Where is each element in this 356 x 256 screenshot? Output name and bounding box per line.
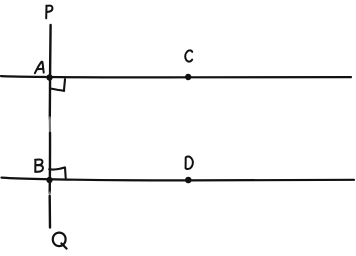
node C (dot) (185, 74, 191, 80)
right-angle mark at A (51, 79, 65, 91)
wire: transversal line PQ upper segment (49, 25, 52, 119)
node A (dot) (46, 74, 52, 80)
wire: transversal line PQ small faint overlap (49, 192, 51, 196)
label B (35, 159, 43, 171)
wire: parallel line 1 through A and C (1, 76, 351, 77)
wire: parallel line 2 through B and D (2, 178, 355, 181)
label C (185, 50, 192, 61)
label D (186, 156, 193, 169)
node D (dot) (185, 177, 192, 184)
wire: transversal line PQ faint overlap (49, 118, 51, 134)
label A (35, 62, 44, 74)
wire: transversal line PQ mid segment (49, 133, 52, 193)
label P (46, 6, 52, 19)
label Q (53, 233, 67, 249)
node B (dot) (46, 177, 52, 183)
wire: transversal line PQ lower segment (49, 196, 52, 228)
right-angle mark at B (49, 167, 65, 178)
